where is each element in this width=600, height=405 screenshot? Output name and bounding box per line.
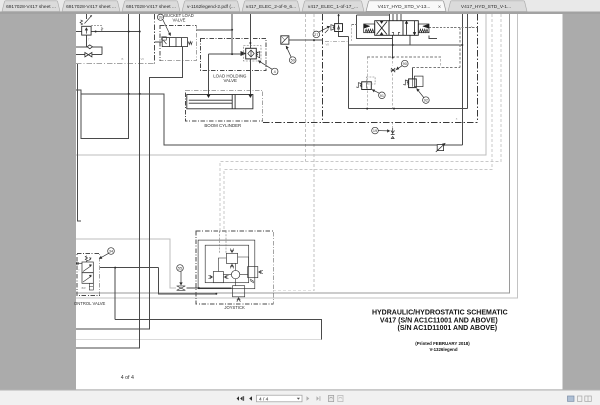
svg-text:V8: V8 bbox=[326, 42, 330, 46]
wire: spool port drop x392.7 bbox=[392, 35, 394, 57]
svg-text:(Printed FEBRUARY 2018): (Printed FEBRUARY 2018) bbox=[415, 341, 470, 346]
dashed pilot at spool right bbox=[429, 27, 478, 29]
boom cylinder enclosure bbox=[186, 91, 263, 121]
circle 19 bbox=[372, 127, 390, 134]
dashed pilot to relief 92 bbox=[412, 28, 460, 68]
circle 90 bbox=[397, 60, 409, 69]
svg-text:4 / 4: 4 / 4 bbox=[259, 396, 269, 402]
svg-text:V6: V6 bbox=[141, 57, 145, 61]
label LOAD HOLDING VALVE bbox=[213, 74, 247, 84]
svg-text:4 of 4: 4 of 4 bbox=[121, 375, 134, 381]
dashed pilot of relief top-left bbox=[91, 26, 103, 31]
title block text bbox=[372, 310, 508, 353]
dashed pilot at spool left bbox=[352, 25, 357, 43]
svg-text:v-1162legend-2.pdf (...: v-1162legend-2.pdf (... bbox=[187, 4, 235, 10]
wire: pump drop x348.7 bbox=[348, 36, 350, 108]
last page button (disabled) bbox=[317, 396, 321, 401]
circle 55 bbox=[177, 265, 184, 285]
wire: spool pipes to top bbox=[389, 14, 401, 21]
previous view icon bbox=[329, 395, 334, 401]
wire: main vertical x250.4 through load holding valve bbox=[249, 14, 251, 94]
svg-text:T: T bbox=[88, 38, 90, 42]
gray frame line x486 bbox=[76, 14, 486, 155]
wire: charge loop lower bbox=[115, 320, 322, 340]
white page bbox=[76, 14, 563, 389]
svg-text:VALVE: VALVE bbox=[173, 18, 186, 23]
svg-text:92: 92 bbox=[424, 99, 428, 103]
svg-text:6917028-V417 sheet ...: 6917028-V417 sheet ... bbox=[126, 4, 176, 10]
center cell marks bbox=[392, 32, 400, 35]
relief valve 92 bbox=[403, 76, 423, 88]
gray pilot line to bowtie bbox=[76, 239, 176, 288]
wire: jog at page edge bbox=[76, 90, 81, 94]
circle 91 bbox=[372, 90, 385, 99]
svg-text:v417_ELEC_2-of-9_6...: v417_ELEC_2-of-9_6... bbox=[246, 4, 296, 10]
next page button (disabled) bbox=[307, 396, 310, 401]
svg-text:×: × bbox=[438, 4, 441, 10]
wire: relief valve tails bbox=[85, 14, 87, 47]
wire: bucket valve to load holding valve bbox=[196, 14, 241, 54]
joystick valve cluster bbox=[198, 240, 263, 302]
shutoff bowtie left bbox=[85, 53, 92, 57]
load holding valve body bbox=[241, 48, 260, 59]
directional control valve (main spool) bbox=[364, 21, 429, 36]
circle 34 bbox=[100, 248, 115, 259]
svg-text:6917028-V417 sheet ...: 6917028-V417 sheet ... bbox=[6, 4, 56, 10]
svg-text:91: 91 bbox=[380, 94, 384, 98]
boom cylinder bbox=[187, 95, 253, 109]
shuttle symbol 90 bbox=[391, 68, 396, 72]
wire: bucket valve inlet bbox=[154, 41, 162, 43]
svg-text:V-1326legend: V-1326legend bbox=[429, 347, 457, 352]
svg-text:ONTROL VALVE: ONTROL VALVE bbox=[74, 301, 106, 306]
wire: drop to relief 92 bbox=[411, 68, 413, 80]
wire: right header x467.3 bbox=[466, 14, 468, 109]
dash-dot boundary left bbox=[76, 14, 154, 64]
top valve bbox=[226, 253, 237, 263]
first page button bbox=[237, 396, 244, 401]
svg-text:(S/N AC1D11001 AND ABOVE): (S/N AC1D11001 AND ABOVE) bbox=[398, 325, 498, 332]
next view icon bbox=[338, 395, 343, 401]
gray line y339 bbox=[76, 339, 322, 341]
relief valve mid (x338) bbox=[325, 24, 343, 33]
wire: check valve branch bbox=[76, 47, 102, 55]
wire: tank line y45 bbox=[349, 44, 463, 46]
label BUCKET LOAD VALVE bbox=[164, 13, 193, 22]
svg-text:27: 27 bbox=[314, 33, 318, 37]
page number field bbox=[257, 395, 303, 402]
left cell X pattern bbox=[377, 22, 388, 35]
pilot dashed line x305 bbox=[305, 14, 307, 162]
svg-text:V417_HYD_STD_V-1...: V417_HYD_STD_V-1... bbox=[461, 4, 511, 10]
svg-text:34: 34 bbox=[109, 250, 113, 254]
circle 27 bbox=[313, 26, 330, 37]
supply bowtie 55 bbox=[177, 286, 186, 290]
bucket load valve cartridge bbox=[162, 37, 193, 47]
wire: right header x462.3 bbox=[461, 14, 463, 145]
left valve bbox=[213, 272, 223, 283]
check valve diamond bbox=[87, 45, 92, 49]
wire: long vertical x139.7 bbox=[76, 14, 140, 348]
svg-text:4: 4 bbox=[274, 70, 276, 74]
dashed pilot below manifold bbox=[392, 122, 394, 128]
control valve enclosure bbox=[77, 254, 100, 296]
right solenoid bbox=[418, 24, 429, 33]
wire: long vertical x128.7 loop to pump line bbox=[81, 14, 462, 145]
bottom valve bbox=[233, 286, 245, 297]
dashed pilots into joystick bbox=[219, 231, 226, 253]
svg-text:B: B bbox=[122, 57, 124, 61]
dash-dot stub V8 bbox=[325, 41, 349, 43]
wire: valve underlines bbox=[356, 15, 392, 39]
right corner icons bbox=[568, 396, 575, 401]
circle 4 bbox=[259, 61, 279, 75]
gray fold line x492 dashed bbox=[224, 14, 492, 231]
internal links bbox=[218, 257, 248, 286]
svg-text:HYDRAULIC/HYDROSTATIC SCHEMATI: HYDRAULIC/HYDROSTATIC SCHEMATIC bbox=[372, 310, 508, 317]
X-connector square bbox=[281, 36, 289, 44]
svg-text:BOOM CYLINDER: BOOM CYLINDER bbox=[204, 123, 241, 128]
wire: control valve output bbox=[100, 268, 217, 320]
load holding valve enclosure bbox=[201, 39, 267, 71]
left solenoid bbox=[364, 24, 375, 33]
TABBAR bbox=[0, 0, 600, 14]
svg-text:90: 90 bbox=[403, 62, 407, 66]
svg-text:19: 19 bbox=[373, 129, 377, 133]
bleeder symbol 19 bbox=[391, 128, 395, 139]
circle 92 bbox=[417, 89, 429, 104]
svg-text:v417_ELEC_1-of-17_...: v417_ELEC_1-of-17_... bbox=[308, 4, 358, 10]
wire: long vertical x149.7 from bucket valve drop bbox=[76, 47, 183, 330]
prev page button bbox=[249, 396, 252, 401]
svg-text:V417 (S/N AC1C11001 AND ABOVE): V417 (S/N AC1C11001 AND ABOVE) bbox=[380, 317, 498, 324]
svg-text:JOYSTICK: JOYSTICK bbox=[224, 305, 245, 310]
svg-text:6917028-V417 sheet ...: 6917028-V417 sheet ... bbox=[66, 4, 116, 10]
wire: load holding to cylinder left bbox=[207, 54, 209, 94]
wire: top-left supply y31.5 bbox=[76, 31, 140, 33]
relief valve top-left bbox=[80, 15, 92, 35]
control valve spool stack bbox=[76, 256, 93, 290]
wire: spool port drop x410.2 bbox=[409, 35, 411, 45]
TOOLBAR bbox=[0, 390, 600, 405]
wire: X-connector output bbox=[289, 39, 323, 41]
right valve bbox=[248, 267, 258, 278]
bucket load valve enclosure bbox=[160, 25, 196, 60]
gray fold line x501 dashed bbox=[220, 14, 501, 231]
svg-text:V417_HYD_STD_V-13...: V417_HYD_STD_V-13... bbox=[378, 4, 431, 10]
circle 39 bbox=[157, 14, 170, 35]
joystick enclosure bbox=[196, 231, 273, 304]
relief valve 91 bbox=[356, 77, 375, 90]
wire: bowtie line into joystick bbox=[187, 287, 232, 289]
junction node dots bbox=[95, 14, 464, 294]
svg-text:39: 39 bbox=[159, 16, 163, 20]
circle 50 bbox=[286, 46, 296, 63]
pilot dashed line x314 to joystick bbox=[273, 14, 314, 291]
svg-text:55: 55 bbox=[178, 267, 182, 271]
drain symbol Dr bbox=[436, 144, 445, 153]
wire: manifold bottom y108.6 bbox=[349, 108, 468, 110]
svg-text:50: 50 bbox=[291, 59, 295, 63]
wire: left drain vertical x77.6 bbox=[78, 64, 81, 221]
sheet inner border right/bottom bbox=[76, 14, 510, 293]
dashed accessory box bbox=[367, 57, 441, 109]
wire: relief mid top tail bbox=[339, 14, 349, 36]
right cell straight arrows bbox=[407, 21, 415, 35]
dashed boundary of load holding cartridge bbox=[244, 46, 262, 62]
dash-dot thick manifold boundary bbox=[263, 14, 478, 122]
sheet outer border right/bottom bbox=[76, 14, 518, 298]
svg-text:PV3: PV3 bbox=[240, 74, 246, 78]
svg-text:VALVE: VALVE bbox=[223, 78, 237, 83]
wire: spool right end stub bbox=[429, 35, 437, 38]
